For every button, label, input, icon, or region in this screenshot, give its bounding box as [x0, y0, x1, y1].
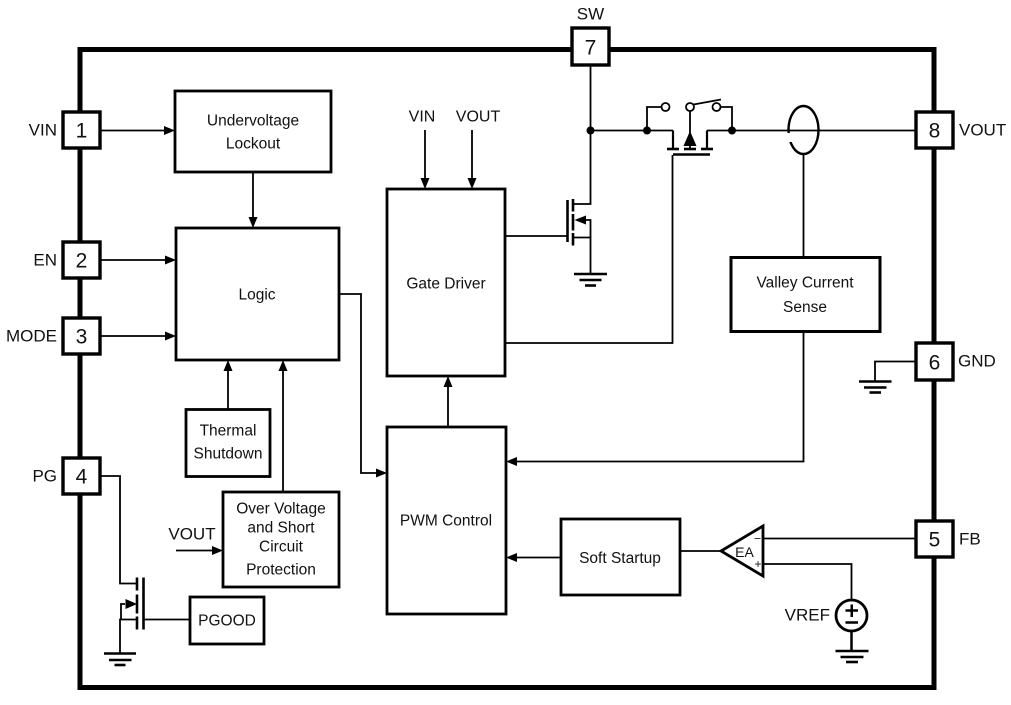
node VOUT label at Over Voltage Protection — [168, 525, 215, 544]
wire Valley Current Sense to PWM Control with arrow — [506, 331, 804, 466]
svg-text:GND: GND — [958, 352, 996, 371]
wire Undervoltage Lockout to Logic with arrow — [249, 172, 258, 228]
transistor Q3 body arrow — [121, 599, 137, 620]
wire Logic to PWM Control with arrow — [339, 294, 387, 478]
svg-text:PWM Control: PWM Control — [400, 513, 492, 530]
svg-text:EN: EN — [33, 251, 57, 270]
wire Thermal Shutdown to Logic with arrow — [224, 360, 233, 410]
transistor Q3 source wire to ground — [120, 620, 137, 654]
svg-text:PG: PG — [32, 467, 57, 486]
pin 5 FB — [916, 521, 981, 557]
svg-text:5: 5 — [929, 529, 941, 552]
svg-text:Thermal: Thermal — [200, 423, 257, 440]
pin 8 VOUT — [916, 112, 1006, 148]
wire Over Voltage Protection to Logic with arrow — [279, 360, 288, 492]
junction dot at SW node — [587, 127, 595, 135]
IC outer boundary — [80, 50, 934, 688]
label VREF — [785, 606, 830, 625]
pin 6 GND — [916, 343, 996, 380]
wire pin2 to Logic with arrow — [100, 256, 176, 265]
svg-text:1: 1 — [76, 120, 88, 143]
svg-text:−: − — [754, 532, 761, 546]
svg-text:Sense: Sense — [783, 299, 827, 316]
svg-text:VREF: VREF — [785, 606, 830, 625]
svg-text:3: 3 — [76, 326, 88, 349]
node VOUT label above Gate Driver — [456, 109, 501, 126]
wire pin4 to PG MOSFET drain — [100, 476, 137, 584]
block Valley Current Sense — [731, 258, 880, 332]
switch contact right circle — [713, 103, 721, 111]
wire pin1 to Undervoltage Lockout with arrow — [100, 126, 175, 135]
svg-text:VOUT: VOUT — [168, 525, 215, 544]
svg-text:VOUT: VOUT — [456, 109, 501, 126]
wire PWM Control to Gate Driver with arrow — [444, 376, 453, 427]
svg-text:PGOOD: PGOOD — [198, 613, 256, 630]
transistor Q3 PG MOSFET channel bars — [136, 578, 139, 630]
svg-text:FB: FB — [959, 530, 981, 549]
svg-text:SW: SW — [577, 5, 604, 24]
svg-text:MODE: MODE — [6, 327, 57, 346]
svg-text:+: + — [754, 557, 761, 571]
junction dot left switch branch — [643, 127, 651, 135]
pin 4 PG — [32, 458, 100, 494]
wire FB pin to EA inverting input — [763, 538, 916, 540]
wire EA output to Soft Startup — [680, 550, 721, 552]
svg-text:Circuit: Circuit — [259, 539, 304, 556]
svg-text:2: 2 — [76, 250, 88, 273]
svg-text:Protection: Protection — [246, 562, 316, 579]
block Logic — [176, 228, 339, 360]
svg-text:VOUT: VOUT — [959, 121, 1006, 140]
block Soft Startup — [561, 519, 680, 595]
pin 1 VIN — [29, 112, 100, 148]
svg-text:7: 7 — [585, 37, 597, 60]
switch lever — [694, 100, 722, 105]
inductor current sense loop — [784, 106, 819, 154]
svg-text:4: 4 — [76, 466, 88, 489]
wire pin3 to Logic with arrow — [100, 332, 176, 341]
wire loop to Valley Current Sense — [803, 154, 805, 258]
wire Gate Driver to low-side MOSFET gate — [505, 235, 568, 237]
block Thermal Shutdown — [186, 410, 270, 477]
wire Soft Startup to PWM Control with arrow — [506, 553, 561, 562]
switch contact left circle — [662, 103, 670, 111]
svg-text:VIN: VIN — [29, 121, 57, 140]
svg-text:EA: EA — [735, 544, 754, 560]
transistor Q2 source wire — [573, 238, 591, 275]
ground at GND pin — [859, 382, 892, 393]
svg-text:6: 6 — [929, 352, 941, 375]
wire Gate Driver to high-side switch gate — [505, 155, 673, 343]
transistor Q2 gate bar — [566, 200, 569, 242]
block PGOOD — [190, 597, 264, 644]
svg-text:Over Voltage: Over Voltage — [236, 501, 326, 518]
wire VIN to Gate Driver with arrow — [421, 130, 430, 189]
transistor Q2 low-side MOSFET drain wire — [573, 131, 591, 205]
wire switch node horizontal left segment — [591, 130, 674, 132]
svg-text:Logic: Logic — [238, 287, 275, 304]
svg-text:Gate Driver: Gate Driver — [406, 276, 485, 293]
wire VOUT to Gate Driver with arrow — [468, 130, 477, 189]
transistor Q3 gate bar — [142, 578, 145, 630]
block Gate Driver — [387, 189, 505, 376]
transistor Q1 gate bar — [673, 153, 710, 156]
wire Q3 gate to PGOOD — [144, 619, 191, 621]
svg-text:Lockout: Lockout — [226, 136, 281, 153]
svg-text:VIN: VIN — [409, 109, 436, 126]
node VIN label above Gate Driver — [409, 109, 436, 126]
svg-text:Soft Startup: Soft Startup — [579, 550, 661, 567]
wire pin7 SW down to switch node — [590, 65, 592, 131]
pin 2 EN — [33, 242, 100, 278]
transistor Q1 body wire with arrow — [684, 111, 697, 148]
ground at Q2 source — [574, 274, 607, 286]
switch contact center circle — [686, 103, 694, 111]
wire VOUT to Over Voltage Protection with arrow — [176, 546, 223, 555]
wire right contact to right branch — [721, 107, 733, 131]
block Over Voltage and Short Circuit Protection — [223, 492, 339, 587]
transistor Q2 channel bars — [572, 199, 575, 246]
transistor Q2 body arrow — [575, 216, 591, 238]
block Undervoltage Lockout — [175, 91, 331, 172]
svg-text:Shutdown: Shutdown — [194, 446, 263, 463]
wire switch node horizontal right segment to pin8 — [707, 130, 916, 132]
op-amp EA error amplifier — [721, 526, 763, 576]
svg-text:Undervoltage: Undervoltage — [207, 113, 299, 130]
wire VREF to EA non-inverting input — [763, 564, 852, 600]
junction dot right switch branch — [728, 127, 736, 135]
wire GND pin to ground — [875, 362, 916, 382]
transistor Q1 high-side switch MOSFET left lead — [672, 131, 674, 150]
svg-text:and Short: and Short — [247, 520, 315, 537]
svg-text:8: 8 — [929, 120, 941, 143]
svg-text:Valley Current: Valley Current — [756, 275, 854, 292]
transistor Q1 right lead — [706, 131, 708, 150]
pin 7 SW — [572, 5, 609, 66]
voltage source VREF — [836, 600, 867, 631]
pin 3 MODE — [6, 318, 100, 354]
transistor Q1 channel bars — [667, 148, 713, 151]
ground at Q3 source — [104, 654, 136, 666]
ground below VREF — [836, 631, 869, 662]
wire left branch to switch contact — [647, 107, 662, 131]
block PWM Control — [387, 427, 506, 614]
